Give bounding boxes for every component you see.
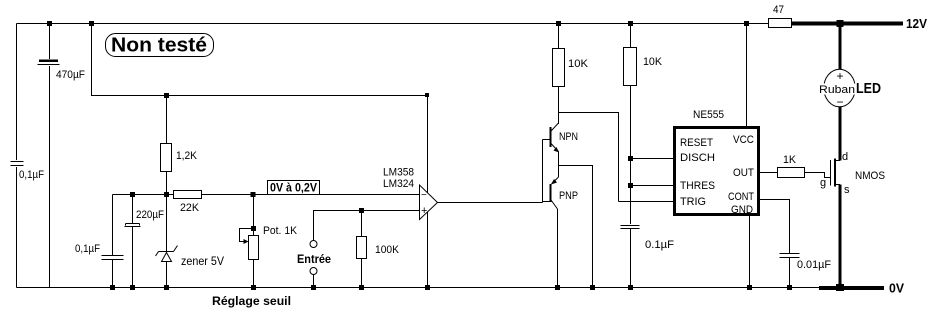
resistor R2 22K [174,191,202,215]
svg-text:0,1µF: 0,1µF [19,169,44,181]
wire plus input [314,211,420,241]
junction dot VCC rail [744,21,749,26]
label Non teste box [106,34,214,57]
junction dot 220uF bottom [130,285,135,290]
svg-text:0,1µF: 0,1µF [75,243,100,255]
svg-text:OUT: OUT [733,167,754,179]
svg-text:zener 5V: zener 5V [181,254,224,268]
svg-text:VCC: VCC [733,134,754,146]
svg-text:0V: 0V [889,281,904,296]
capacitor C4 220uF [125,195,165,288]
transistor Q2 PNP [543,166,579,288]
capacitor C1 0,1uF (far left) [9,160,44,181]
junction dot 1,2K top [164,93,169,98]
wire branch to y95 bus [92,24,428,96]
svg-text:Non testé: Non testé [111,35,207,57]
svg-text:LED: LED [856,80,881,97]
wire bottom 0V rail [17,287,820,289]
svg-text:+: + [836,69,843,83]
junction dot C3 bottom [110,285,115,290]
svg-text:Réglage seuil: Réglage seuil [212,294,291,308]
svg-text:22K: 22K [180,202,200,214]
resistor R5 10K (555) [624,24,663,225]
junction dot GND ground [747,285,752,290]
IC U2 NE555 [675,128,759,217]
svg-text:TRIG: TRIG [680,196,706,208]
svg-text:Entrée: Entrée [297,252,331,266]
svg-text:Pot. 1K: Pot. 1K [263,225,298,237]
svg-text:470µF: 470µF [56,69,85,81]
wire VCC [746,24,748,127]
transistor Q1 NPN [543,123,579,166]
junction dot LED rail [837,20,844,27]
junction dot 10K rail [556,21,561,26]
potentiometer Pot. 1K [240,195,298,288]
label 0V a 0,2V box [268,181,320,195]
op-amp U1 [420,185,438,220]
terminal Entree top [310,241,317,248]
junction dot rail y95 branch [89,21,94,26]
svg-text:10K: 10K [643,56,663,68]
svg-text:THRES: THRES [680,180,715,192]
wire LED cathode / drain [839,107,842,161]
wire left vertical [16,24,18,288]
wire reference bus [113,194,420,196]
svg-text:0V à 0,2V: 0V à 0,2V [270,181,317,195]
wire OUT [760,172,777,174]
svg-text:100K: 100K [375,244,400,256]
svg-text:PNP: PNP [559,190,578,202]
svg-text:NPN: NPN [559,131,578,143]
resistor R7 47 [769,4,792,28]
junction dot 1,2K bottom [164,192,169,197]
capacitor C5 0.1uF [621,226,675,288]
capacitor C2 470uF [37,59,85,81]
svg-text:NMOS: NMOS [855,170,885,182]
wire top 12V rail [17,23,769,25]
capacitor C3 0,1uF (second) [75,195,124,288]
wire base tie vertical [542,140,544,203]
junction dot pot top [251,192,256,197]
svg-text:1,2K: 1,2K [176,150,198,162]
wire gate [805,173,831,178]
transistor Q3 NMOS [820,151,885,196]
junction dot pot bottom [251,285,256,290]
junction dot rail 470uF [47,21,52,26]
svg-text:g: g [820,177,826,189]
wire op-amp output [438,202,543,204]
junction dot C6 ground [787,285,792,290]
resistor R6 1K [778,154,805,178]
svg-text:−: − [421,190,427,201]
svg-text:LM324: LM324 [383,178,414,190]
wire THRES [631,185,674,187]
resistor R1 1,2K [161,96,198,195]
svg-text:1K: 1K [783,154,797,166]
junction dot Entree bottom [311,285,316,290]
wire emitters node [559,166,593,288]
svg-text:NE555: NE555 [693,109,724,121]
junction dot THRES [628,183,633,188]
svg-text:CONT: CONT [728,191,754,203]
svg-text:LM358: LM358 [383,167,414,179]
wire 470uF branch [49,24,51,288]
junction dot 100K top [359,208,364,213]
svg-text:d: d [842,151,848,163]
capacitor C6 0.01uF [780,254,832,288]
wire TRIG [619,201,674,203]
junction dot zener bottom [164,285,169,290]
svg-text:0.01µF: 0.01µF [797,259,831,271]
wire CONT [760,200,790,254]
svg-text:GND: GND [731,204,753,216]
wire thick 12V segment [792,22,904,26]
wire collector to 555 vertical [559,113,619,202]
junction dot mid vertical bottom [425,285,430,290]
junction dot emitters ground [590,285,595,290]
svg-text:DISCH: DISCH [680,152,715,164]
wire GND [749,216,751,288]
wire DISCH [631,158,674,160]
junction dot C5 ground [628,285,633,290]
junction dot 220uF top [130,192,135,197]
LED Ruban circle [818,69,856,109]
junction dot 10K-2 rail [628,21,633,26]
wire thick 0V segment [819,286,884,290]
svg-text:RESET: RESET [680,137,713,149]
svg-text:s: s [844,184,850,196]
svg-text:220µF: 220µF [136,209,164,221]
wire op-amp mid vertical [427,96,429,288]
junction dot source ground [836,284,844,291]
junction dot PNP collector ground [555,285,560,290]
svg-text:10K: 10K [568,58,589,70]
zener diode D1 5V [156,195,225,288]
wire source [839,185,842,288]
svg-text:0.1µF: 0.1µF [645,239,674,251]
wire LED anode [839,24,842,70]
resistor R3 100K [357,211,400,288]
junction dot y95 corner [425,93,429,97]
junction dot DISCH [628,156,633,161]
resistor R4 10K [553,24,589,125]
terminal Entree bottom [310,268,317,288]
svg-text:12V: 12V [906,16,927,31]
svg-text:+: + [421,205,427,217]
svg-text:47: 47 [773,4,784,16]
junction dot 100K bottom [359,285,364,290]
